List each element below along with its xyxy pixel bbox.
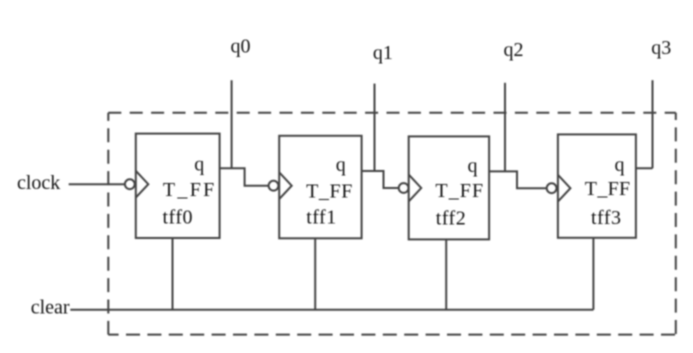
wire: net q2 vertical (tff2.q up to top) — [504, 83, 506, 172]
wire: tff2.q to tff3.clock (stepped) — [489, 171, 547, 188]
svg-text:tff0: tff0 — [163, 207, 194, 229]
T flip-flop tff2 body — [409, 136, 489, 239]
wire: clock input to tff0 bubble — [69, 183, 125, 185]
svg-text:q3: q3 — [651, 37, 671, 59]
wire: net q3 vertical (up to top) — [652, 80, 654, 168]
svg-text:T_FF: T_FF — [163, 179, 217, 201]
wire: tff1 clear pin down — [314, 238, 316, 309]
wire: clear bus horizontal — [70, 309, 593, 311]
wire: tff2 clear pin down — [445, 239, 447, 309]
svg-text:q1: q1 — [373, 42, 393, 64]
clock bubble of tff2 — [399, 183, 409, 193]
T flip-flop tff3 body — [558, 134, 636, 237]
svg-text:tff3: tff3 — [591, 207, 622, 229]
wire: tff3.q to net q3 corner — [636, 167, 653, 169]
clock bubble of tff3 — [547, 183, 557, 193]
svg-text:q2: q2 — [504, 39, 524, 61]
clock chevron of tff2 — [409, 175, 422, 202]
clock chevron of tff1 — [279, 172, 292, 199]
T flip-flop tff1 body — [279, 136, 361, 239]
svg-text:q0: q0 — [231, 36, 251, 58]
svg-text:clock: clock — [17, 172, 60, 194]
module boundary: bottom dashed edge — [108, 334, 676, 336]
svg-text:T_FF: T_FF — [306, 181, 353, 203]
clock chevron of tff0 — [136, 171, 149, 198]
wire: tff0.q to tff1.clock (stepped) — [220, 168, 269, 185]
wire: net q0 vertical (tff0.q up to top) — [231, 80, 233, 168]
svg-text:q: q — [336, 154, 346, 176]
wire: tff1.q to tff2.clock (stepped) — [362, 171, 399, 188]
module boundary: top dashed edge — [108, 112, 676, 114]
T flip-flop tff0 body — [136, 134, 220, 238]
clock bubble of tff1 — [269, 181, 279, 191]
svg-text:q: q — [468, 155, 478, 177]
svg-text:clear: clear — [31, 296, 70, 318]
wire: net q1 vertical (tff1.q up to top) — [374, 84, 376, 171]
svg-text:q: q — [615, 154, 625, 176]
clock chevron of tff3 — [558, 175, 571, 202]
svg-text:tff2: tff2 — [436, 208, 467, 230]
svg-text:T_FF: T_FF — [435, 180, 484, 202]
module boundary: left dashed edge — [107, 113, 109, 335]
wire: tff0 clear pin down — [172, 238, 174, 310]
svg-text:tff1: tff1 — [306, 207, 337, 229]
svg-text:q: q — [194, 154, 204, 176]
svg-text:T_FF: T_FF — [585, 178, 631, 200]
module boundary: right dashed edge — [675, 113, 677, 335]
wire: tff3 clear pin down — [592, 238, 594, 310]
clock bubble of tff0 — [125, 179, 135, 189]
